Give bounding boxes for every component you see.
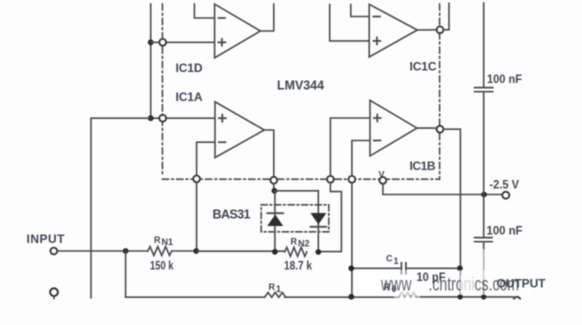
svg-text:R: R	[269, 282, 276, 292]
svg-text:100 nF: 100 nF	[487, 72, 522, 86]
svg-text:V: V	[379, 170, 385, 180]
svg-text:IC1D: IC1D	[176, 61, 203, 75]
node: C1 left dot	[348, 265, 354, 271]
wire: IC1A output pin down	[273, 184, 275, 191]
wire: IC1B - input	[352, 141, 370, 176]
wire: IC1A output	[264, 130, 274, 177]
svg-text:1: 1	[394, 256, 399, 266]
node: bus to IC1D dot	[148, 39, 154, 45]
op-amp IC1A	[215, 102, 264, 158]
IC boundary dash-dot bottom horizontal	[162, 178, 439, 180]
pin circle IC1C output	[437, 26, 444, 33]
svg-text:-2.5 V: -2.5 V	[490, 178, 520, 192]
IC1B minus sign	[374, 140, 380, 142]
capacitor C3 100nF plates	[475, 238, 493, 242]
diode D1 cathode bar	[267, 212, 283, 214]
pin circle IC1A -	[193, 176, 200, 183]
wire: IC1C - feedback	[351, 5, 369, 17]
wire: input bus vertical	[150, 4, 152, 118]
IC1D plus sign	[219, 39, 226, 46]
op-amp IC1C	[369, 4, 417, 57]
rail wash	[474, 249, 496, 281]
wire: diode top link	[274, 190, 318, 192]
IC1D minus sign	[219, 17, 225, 19]
node: diode top left dot	[272, 188, 278, 194]
node: RN2 right dot	[315, 249, 321, 255]
wire: IC1B + input	[330, 118, 370, 176]
svg-text:18.7 k: 18.7 k	[284, 259, 312, 273]
wire: supply rail top	[483, 3, 485, 87]
svg-text:IC1A: IC1A	[176, 90, 203, 104]
IC1B plus sign	[374, 115, 381, 122]
wire: right diode branch	[317, 191, 319, 252]
diode D1 (up)	[267, 215, 283, 227]
wire: IC1B output right and down	[443, 129, 460, 297]
pin circle IC1D +	[159, 39, 166, 46]
wire: C1 right	[406, 267, 460, 269]
wire: IC1A + from left	[151, 117, 215, 119]
node: RN2 left dot	[272, 249, 278, 255]
IC boundary dash-dot right vertical	[439, 4, 441, 179]
wire: supply rail bottom	[483, 242, 485, 297]
wire: RN1 to RN2	[172, 250, 197, 252]
wire: IC1A - input	[197, 142, 215, 175]
svg-text:INPUT: INPUT	[27, 232, 66, 246]
resistor R0 bottom	[399, 292, 417, 297]
node: bottom output dot	[458, 294, 463, 299]
diode D2 cathode bar	[311, 226, 327, 228]
svg-text:N1: N1	[162, 237, 174, 247]
pin circle IC1A output	[270, 177, 277, 184]
wire: IC1A - pin down to RN1 node	[196, 182, 198, 251]
terminal circle -2.5V	[502, 192, 509, 199]
diode D2 (down)	[310, 213, 326, 225]
svg-text:R: R	[154, 235, 161, 245]
node: rail -2.5V dot	[481, 192, 487, 198]
svg-text:100 nF: 100 nF	[487, 224, 523, 238]
terminal circle input low	[50, 288, 58, 296]
pin circle V	[380, 177, 387, 184]
svg-text:C: C	[386, 254, 393, 264]
R0 wash	[394, 285, 420, 298]
wire: IC1C output stub up	[443, 3, 449, 30]
IC1A plus sign	[219, 115, 226, 122]
node: bottom rail dot	[481, 294, 486, 299]
wire: supply rail middle	[483, 92, 485, 237]
resistor RN2	[285, 247, 307, 256]
wire: IC1B - pin down to bottom	[351, 183, 353, 297]
node: bottom IC1B dot	[348, 294, 354, 300]
pin circle IC1A +	[159, 115, 166, 122]
IC1C minus sign	[374, 16, 380, 18]
wire: C1 left	[352, 267, 401, 269]
wire: IC1D output	[260, 4, 273, 31]
pin circle IC1B +	[327, 176, 334, 183]
wire: IC1B output	[417, 127, 437, 129]
wire: input to RN1	[57, 250, 148, 252]
svg-text:10 pF: 10 pF	[417, 270, 446, 284]
pin circle IC1B -	[349, 176, 356, 183]
op-amp IC1B	[370, 100, 417, 156]
terminal circle INPUT	[50, 248, 57, 255]
pin circle IC1B output	[437, 126, 444, 133]
svg-text:LMV344: LMV344	[277, 78, 325, 93]
svg-text:N2: N2	[298, 239, 310, 249]
svg-text:1: 1	[276, 284, 281, 294]
watermark backdrop	[358, 270, 532, 295]
resistor R1 bottom	[265, 292, 286, 297]
svg-text:OUTPUT: OUTPUT	[497, 277, 547, 291]
IC1A minus sign	[219, 141, 225, 143]
node: C1 right dot	[457, 265, 463, 271]
wire: bottom run	[285, 296, 399, 298]
wire: left drop from IC1A + node	[91, 118, 151, 298]
svg-text:IC1B: IC1B	[410, 159, 436, 173]
wire: IC1D - feedback	[194, 4, 214, 18]
node: input branch dot	[123, 248, 129, 254]
wire: IC1B + pin jog down to RN2	[321, 183, 341, 252]
BAS31 dash-dot box	[261, 205, 329, 232]
wire: left diode branch	[274, 191, 276, 252]
capacitor C1 plates	[401, 263, 406, 274]
watermark wash over n	[461, 276, 474, 294]
svg-text:R: R	[291, 237, 298, 247]
wire: bottom run right	[416, 296, 514, 298]
wire: V pin to -2.5V rail	[383, 184, 502, 195]
svg-text:150 k: 150 k	[150, 259, 174, 273]
IC boundary dash-dot left vertical	[161, 4, 163, 176]
svg-text:IC1C: IC1C	[410, 59, 437, 73]
wire: IC1D + input	[151, 41, 215, 43]
svg-text:0: 0	[392, 284, 397, 294]
op-amp IC1D	[215, 4, 261, 58]
wire: IC1C output	[417, 29, 436, 31]
wire: IC1C + input	[330, 5, 370, 41]
node: bus bottom dot	[148, 115, 154, 121]
svg-text:R: R	[384, 282, 391, 292]
wire: input lower drop	[126, 251, 265, 297]
resistor RN1	[148, 247, 172, 256]
IC1C plus sign	[374, 38, 381, 45]
white cut mask bottom	[0, 300, 582, 325]
svg-text:BAS31: BAS31	[213, 208, 251, 222]
node: RN1 right dot	[193, 248, 199, 254]
wire: mid row	[197, 250, 285, 252]
capacitor C2 100nF plates	[475, 88, 493, 92]
terminal circle OUTPUT	[514, 297, 521, 304]
wire: input low stub	[53, 296, 55, 298]
